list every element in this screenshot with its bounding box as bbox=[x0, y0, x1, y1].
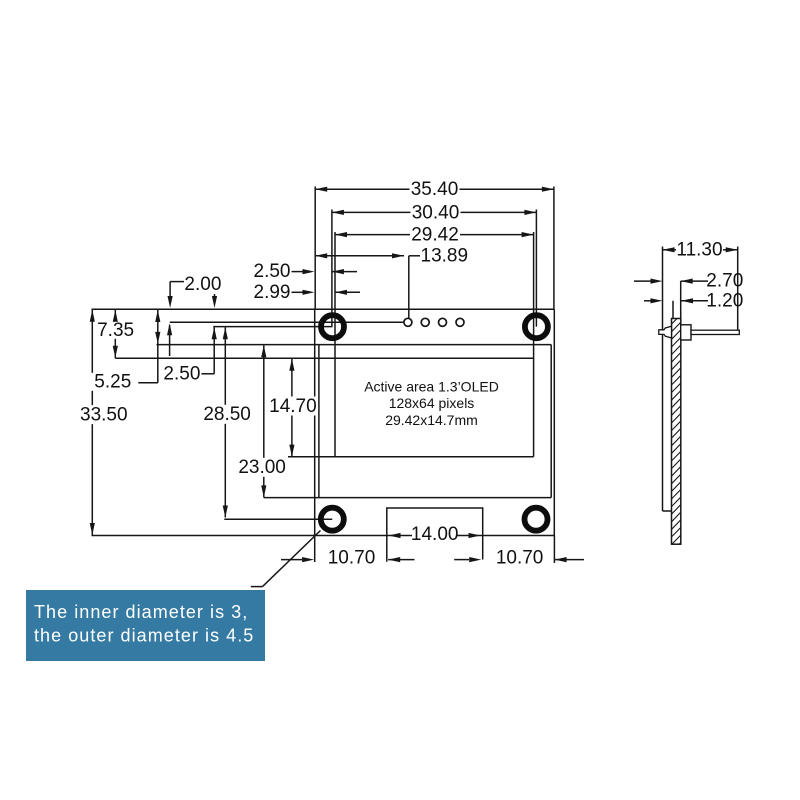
svg-text:2.70: 2.70 bbox=[706, 271, 743, 292]
svg-text:29.42x14.7mm: 29.42x14.7mm bbox=[385, 412, 478, 428]
pin body reference line bbox=[680, 281, 682, 325]
pin hole 3 bbox=[439, 318, 447, 326]
dimension 2.50 left bbox=[162, 327, 216, 384]
bottom dimension 10.70 left bbox=[281, 547, 375, 568]
mounting hole bottom-right bbox=[525, 508, 548, 531]
right hole center extension bbox=[535, 210, 537, 327]
solder bump bbox=[659, 326, 672, 338]
pin shaft bbox=[691, 330, 739, 334]
dimension 35.40 bbox=[315, 179, 554, 200]
svg-text:the outer diameter is 4.5: the outer diameter is 4.5 bbox=[34, 626, 254, 646]
svg-text:30.40: 30.40 bbox=[412, 202, 460, 223]
svg-text:128x64 pixels: 128x64 pixels bbox=[389, 395, 475, 411]
hole center reference line bbox=[213, 326, 332, 328]
pin connector box bbox=[387, 508, 483, 562]
svg-text:5.25: 5.25 bbox=[94, 372, 131, 393]
svg-text:10.70: 10.70 bbox=[496, 547, 544, 568]
glass thickness reference line bbox=[672, 301, 674, 319]
callout box bbox=[26, 590, 265, 661]
PCB left edge lower extension bbox=[314, 536, 316, 563]
bottom hole center reference line bbox=[224, 518, 332, 520]
dimension 30.40 bbox=[332, 202, 537, 223]
svg-text:2.50: 2.50 bbox=[254, 261, 291, 282]
bottom dimension 10.70 right bbox=[496, 547, 584, 568]
svg-text:11.30: 11.30 bbox=[676, 239, 722, 260]
glass panel top edge with left extension bbox=[157, 344, 552, 346]
active area bottom edge with left extension bbox=[288, 456, 534, 458]
mounting hole top-left bbox=[321, 315, 344, 338]
svg-text:23.00: 23.00 bbox=[238, 457, 286, 478]
dimension 13.89 bbox=[315, 246, 468, 267]
svg-text:29.42: 29.42 bbox=[411, 225, 459, 246]
side PCB back line bbox=[662, 247, 664, 512]
PCB right edge lower extension bbox=[553, 536, 555, 564]
dimension 14.00 bbox=[389, 524, 481, 545]
svg-text:14.00: 14.00 bbox=[411, 524, 459, 545]
dimension 29.42 bbox=[335, 225, 534, 246]
svg-text:35.40: 35.40 bbox=[411, 179, 459, 200]
svg-text:1.20: 1.20 bbox=[706, 290, 743, 311]
active area left edge with upward extension bbox=[334, 232, 336, 457]
PCB right edge upper extension bbox=[553, 187, 555, 310]
pin row reference line bbox=[170, 321, 404, 323]
svg-text:13.89: 13.89 bbox=[421, 246, 469, 267]
glass panel left edge bbox=[318, 345, 320, 498]
side display panel (hatched) bbox=[672, 315, 681, 552]
pin tip extension line bbox=[737, 247, 739, 331]
bottom dimension arrows at connector bbox=[388, 557, 481, 562]
PCB left edge bbox=[314, 309, 316, 535]
left hole center extension bbox=[331, 210, 333, 327]
pin hole 2 bbox=[421, 318, 429, 326]
svg-text:2.99: 2.99 bbox=[254, 282, 291, 303]
13.89 leader vertical bbox=[408, 256, 410, 319]
dimension 7.35 bbox=[95, 309, 137, 358]
dimension 14.70 bbox=[269, 359, 317, 457]
PCB left edge upper extension bbox=[314, 187, 316, 310]
PCB bottom edge with left extension and 14.00 text gap bbox=[92, 535, 555, 537]
dimension 5.25 bbox=[87, 310, 160, 393]
glass panel bottom edge with left extension bbox=[264, 497, 551, 499]
dimension 23.00 bbox=[237, 345, 287, 497]
side PCB bottom edge bbox=[663, 510, 672, 512]
pin body bbox=[681, 325, 691, 340]
svg-text:28.50: 28.50 bbox=[203, 404, 251, 425]
dimension 33.50 bbox=[80, 309, 128, 535]
dimension 1.20 bbox=[644, 290, 743, 311]
mounting hole bottom-left bbox=[321, 508, 344, 531]
active area label bbox=[364, 379, 499, 429]
dimension 2.50 top bbox=[254, 261, 357, 282]
PCB top edge with left extension bbox=[92, 308, 555, 310]
svg-text:33.50: 33.50 bbox=[80, 404, 128, 425]
svg-text:The inner diameter is 3,: The inner diameter is 3, bbox=[34, 602, 248, 622]
glass panel right edge bbox=[550, 345, 552, 498]
svg-text:7.35: 7.35 bbox=[97, 320, 134, 341]
dimension 11.30 bbox=[663, 239, 738, 260]
svg-text:2.50: 2.50 bbox=[163, 364, 200, 385]
pin hole 4 bbox=[456, 318, 464, 326]
dimension 28.50 bbox=[203, 327, 251, 517]
active area top edge with left extension bbox=[115, 357, 533, 359]
PCB right edge bbox=[553, 309, 555, 535]
pin hole 1 bbox=[404, 318, 412, 326]
dimension 2.70 bbox=[634, 271, 743, 292]
leader line to bottom-left hole bbox=[251, 531, 321, 587]
active area right edge with upward extension bbox=[533, 232, 535, 457]
svg-text:2.00: 2.00 bbox=[184, 274, 221, 295]
dimension 2.00 bbox=[168, 274, 222, 308]
mounting hole top-right bbox=[525, 315, 548, 338]
dimension 2.99 bbox=[254, 282, 360, 303]
svg-text:Active area 1.3’OLED: Active area 1.3’OLED bbox=[364, 379, 499, 395]
svg-text:14.70: 14.70 bbox=[269, 396, 317, 417]
svg-text:10.70: 10.70 bbox=[328, 547, 376, 568]
2.00 lower arrow bbox=[167, 323, 172, 356]
